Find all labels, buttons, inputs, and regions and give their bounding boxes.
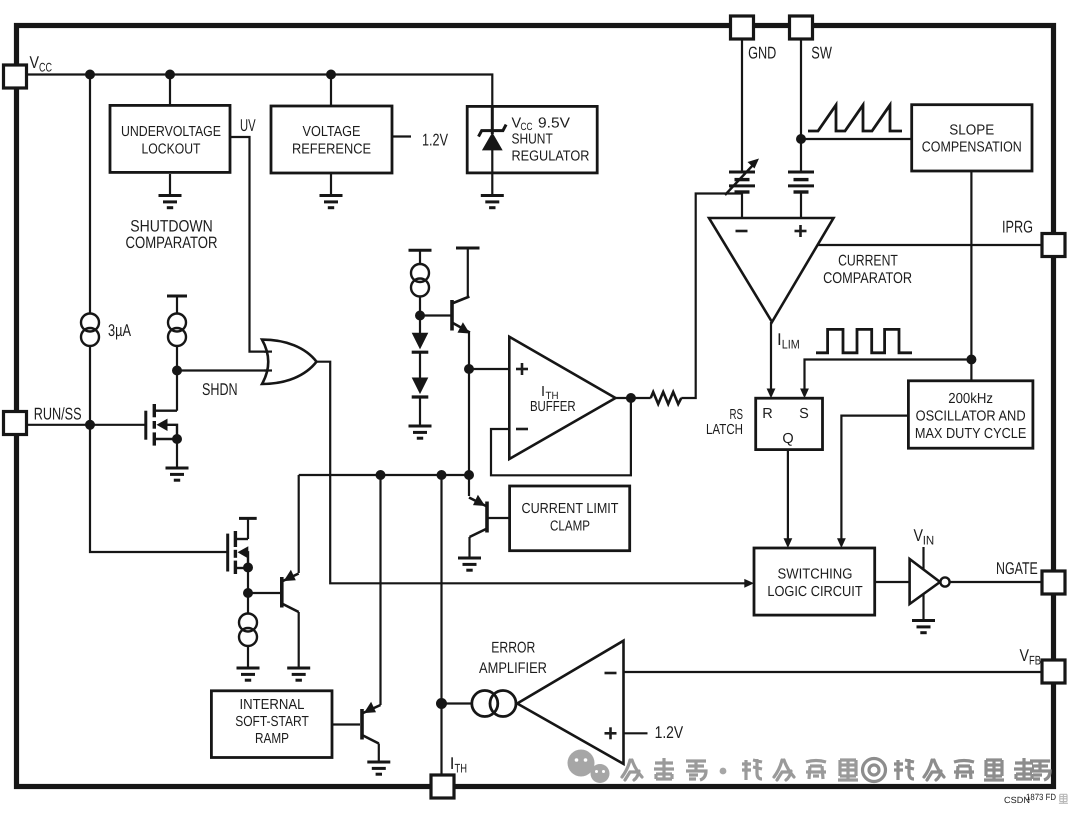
arrowhead oscillator into switching logic [837,538,846,548]
svg-text:RUN/SS: RUN/SS [34,405,82,424]
svg-text:1.2V: 1.2V [422,130,448,149]
current source CS2 [168,314,186,347]
node NPN1 base [415,311,425,321]
wire PNP3 emitter up to bus [379,475,381,705]
svg-text:CURRENT: CURRENT [838,253,898,270]
box 200kHz oscillator [908,381,1033,448]
svg-text:SHUNT: SHUNT [512,131,553,147]
driver inversion bubble [940,577,949,586]
node RUN/SS [85,420,95,430]
wire UVLO supply drop [169,75,171,106]
wire clamp PNP collector to ground [468,537,470,558]
svg-text:TH: TH [455,762,468,776]
wire VREF supply drop [330,75,332,107]
wire PNP2 emitter up to ITH bus [298,475,300,573]
svg-text:FB: FB [1029,654,1041,668]
pad RUN/SS [4,412,27,435]
wire GND pad down to sense element [741,39,743,172]
svg-text:1873 FD: 1873 FD [1026,792,1056,802]
wire SHDN net to OR gate [177,369,267,371]
wire SW pad down to sense element [800,39,802,172]
node ITH-error amp [436,698,447,709]
wire NPN1 collector supply [467,248,469,296]
OR gate U1 shutdown [262,340,317,384]
pad ITH [431,775,454,798]
wire NPN1 base wire [420,314,452,316]
svg-text:3µA: 3µA [108,321,131,340]
svg-text:TH: TH [546,390,559,402]
wire plus input of ITH buffer [469,368,509,370]
wire error amp bias tail [442,702,472,704]
box VCC shunt regulator [467,106,597,172]
box internal soft-start ramp [211,691,332,758]
pad NGATE [1042,571,1065,594]
sign plus error amp [605,732,617,735]
wire NPN1 base node to CS4 [419,296,421,333]
node buffer plus tap [464,364,474,374]
arrowhead Q into switching logic [784,538,793,548]
svg-text:INTERNAL: INTERNAL [240,697,305,713]
wire OR gate input stubs [264,351,272,353]
svg-text:ERROR: ERROR [491,639,535,656]
svg-text:SW: SW [811,43,832,62]
svg-text:IN: IN [923,534,935,548]
sign plus comparator [795,230,807,233]
arrowhead OR output into switching logic [744,579,754,588]
diode D2 [412,378,429,398]
wire NPN1 emitter down through bus to clamp PNP [468,331,470,496]
node VCC-UVLO [165,70,175,80]
supply bar CS4 [409,249,432,252]
svg-text:1.2V: 1.2V [655,723,684,742]
transistor PNP2 [282,570,299,612]
transistor NPN1 buffer bias [452,297,470,334]
error amp bias current source pair [472,691,516,717]
svg-text:R: R [762,406,772,422]
current source CS4 [411,264,429,297]
supply bar Q2 [239,517,257,520]
wire VREF ground stub [330,173,332,196]
box current limit clamp [510,486,630,551]
op-amp current comparator [709,218,834,322]
sign plus ITH buffer [516,368,528,371]
transistor PNP3 soft-start [362,702,381,744]
ground under diodes [409,426,432,438]
svg-text:200kHz: 200kHz [948,391,993,407]
arrowhead ILIM into R [767,389,776,399]
wire comparator output ILIM to R input [770,322,772,391]
watermark separator dot [720,768,727,775]
wire Q2 source chain down [247,568,249,614]
svg-text:SHUTDOWN: SHUTDOWN [130,218,213,236]
current source CS3 [239,614,257,647]
node SHDN [172,366,182,376]
node oscillator-S [966,355,976,365]
wire VIN to driver [922,547,924,571]
sense element SW side [788,172,814,192]
box undervoltage lockout [110,105,230,172]
svg-text:COMPARATOR: COMPARATOR [126,234,218,252]
sense element GND side (adjustable) [729,172,755,192]
wire CS3 to ground [247,646,249,668]
svg-text:GND: GND [748,43,776,62]
waveform square oscillator [816,329,912,352]
wire VCC rail [27,75,493,108]
wire D2 to ground [419,398,421,427]
svg-text:Q: Q [782,431,793,447]
op-amp ITH buffer [509,337,615,459]
watermark at-sign overlap cluster [863,758,1051,782]
wire VFB pad to error amp minus [624,671,1043,673]
ground under PNP2 [287,668,310,680]
ground under shunt regulator [481,196,504,208]
svg-text:UNDERVOLTAGE: UNDERVOLTAGE [121,124,221,140]
current source 3uA [81,314,99,347]
svg-text:CLAMP: CLAMP [550,519,590,535]
node VCC-VREF [326,70,336,80]
svg-text:RS: RS [730,407,744,423]
svg-text:S: S [799,406,809,422]
svg-text:SHDN: SHDN [202,380,238,399]
svg-text:SWITCHING: SWITCHING [778,567,853,583]
zener inside shunt box redrawn above box fill [479,107,507,173]
svg-text:I: I [541,384,545,400]
wire switching logic to gate driver [875,581,910,583]
ground under UVLO [159,196,182,208]
sign minus ITH buffer [516,428,528,431]
supply bar CS2 [167,295,187,298]
wire Q1 source to ground [176,439,178,468]
arrowhead into S [800,389,809,399]
watermark wechat icon [568,750,610,784]
wire CS2 to Q1 drain with SHDN tap [176,346,178,411]
svg-text:CURRENT LIMIT: CURRENT LIMIT [522,501,619,517]
wire PNP2 collector to ground [298,612,300,668]
wire Q2 node to PNP2 base [248,592,280,594]
waveform sawtooth slope comp [808,105,902,131]
svg-text:SOFT-START: SOFT-START [235,714,309,730]
wire SW node to slope compensation box [801,138,912,140]
pad IPRG [1042,234,1065,257]
wire RUN/SS pad to MOSFET Q1 gate [27,424,146,426]
ground under Q1 [166,468,189,480]
svg-text:IPRG: IPRG [1002,218,1033,237]
node bus-PNP3 [376,470,386,480]
box voltage reference [271,106,392,173]
supply bar NPN1 [456,247,480,250]
watermark pseudo glyphs row [622,758,706,780]
ground under gate driver [912,621,935,633]
pad VFB [1042,660,1065,683]
box slope compensation [912,105,1032,171]
mosfet Q1 shutdown [146,404,177,446]
op-amp error amplifier [517,641,623,764]
svg-text:SLOPE: SLOPE [949,123,994,139]
wire soft-start box to PNP3 base [332,723,360,725]
svg-text:REFERENCE: REFERENCE [292,142,371,158]
wire ITH buffer output to resistor and up to minus bus [616,397,651,399]
ground under CS3 [237,668,260,680]
pad GND [731,16,754,39]
pad SW [790,16,813,39]
label shutdown comparator [126,218,218,253]
svg-text:OSCILLATOR AND: OSCILLATOR AND [916,409,1026,425]
svg-text:9.5V: 9.5V [538,115,570,131]
label shunt regulator lines [512,115,590,164]
wire UVLO ground stub [169,174,171,196]
node Q2-PNP2 base [243,588,253,598]
svg-text:COMPARATOR: COMPARATOR [823,270,912,287]
svg-text:AMPLIFIER: AMPLIFIER [479,660,547,677]
diode D1 [412,333,429,352]
svg-text:LATCH: LATCH [706,422,743,438]
svg-text:VOLTAGE: VOLTAGE [303,124,361,140]
wire slope compensation down to oscillator [970,171,972,381]
wire 3uA source to RUN/SS node [89,346,91,425]
wire 3uA branch from VCC rail [89,75,91,314]
wire driver output to NGATE pad [950,581,1043,583]
wire UV net from UVLO to OR gate [231,137,267,352]
node Q1 source-body [172,434,182,444]
box switching logic circuit [754,548,875,615]
svg-text:LOCKOUT: LOCKOUT [142,141,201,157]
node bus-ITH [437,470,447,480]
sign minus error amp [605,672,617,675]
wire Q output to switching logic [787,450,789,541]
label RS LATCH [706,407,743,438]
wire CS4 top bar [419,250,421,264]
wire oscillator output to switching logic [841,416,908,541]
ground under PNP3 [367,762,390,774]
svg-text:LIM: LIM [782,338,800,352]
node bus-clamp [464,470,474,480]
watermark small gray glyph [1059,794,1068,803]
wire clamp PNP base to box [487,517,510,519]
mosfet Q2 soft-start [228,531,249,574]
wire PNP3 collector to ground [378,744,380,763]
ground under clamp PNP [458,558,481,570]
wire GND sense to comparator minus [741,192,743,218]
wire S input from oscillator node [805,360,972,391]
svg-text:LOGIC CIRCUIT: LOGIC CIRCUIT [767,584,862,600]
wire shunt zener to ground [491,150,493,196]
svg-text:REGULATOR: REGULATOR [512,148,590,164]
svg-text:CC: CC [39,61,52,75]
gate driver buffer [910,559,940,604]
svg-text:NGATE: NGATE [996,559,1038,578]
wire diode D1 to D2 [419,353,421,378]
wire comparator to IPRG pad [818,244,1043,246]
wire ITH bus horizontal [299,474,469,476]
wire SW sense to comparator plus [800,192,802,218]
sign minus comparator [736,230,748,233]
svg-text:MAX DUTY CYCLE: MAX DUTY CYCLE [915,426,1027,442]
pad VCC [4,65,27,88]
wire ITH buffer feedback loop [491,398,631,475]
wire ITH vertical net [440,475,442,776]
svg-text:UV: UV [240,116,256,135]
transistor PNP4 current limit clamp (mirrored) [469,495,487,537]
box RS latch [756,398,823,449]
node Q2 source-body [243,563,253,573]
svg-text:COMPENSATION: COMPENSATION [922,140,1022,156]
node buffer output [626,393,636,403]
node VCC-3uA [85,70,95,80]
ground under VREF [320,196,343,208]
wire VREF 1.2V output stub [392,135,411,137]
wire error amp plus to 1.2V [624,732,648,734]
wire OR output to switching logic [317,362,747,584]
arrow across GND sense [725,159,759,196]
wire RUN/SS node down to MOSFET Q2 gate [90,425,228,552]
wire CS2 top bar to circles [176,296,178,314]
wire driver to ground [922,594,924,621]
resistor R1 on buffer output [651,392,682,404]
node SW sense [796,134,806,144]
svg-text:RAMP: RAMP [255,731,289,747]
